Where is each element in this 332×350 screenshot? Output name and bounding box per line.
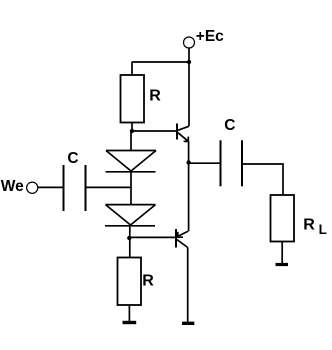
wire: junction down to D1 anode <box>130 131 132 151</box>
transistor Q1 emitter arrowhead <box>184 140 189 142</box>
node: D2/R2/Q2-base junction dot <box>127 236 131 240</box>
wire: +Ec terminal down to Q1 collector <box>188 48 190 126</box>
wire: We terminal to C1 <box>38 186 64 188</box>
wire: supply junction left to R1 top <box>132 61 190 63</box>
wire: C2 right plate to RL <box>242 164 283 195</box>
wire: R1 bottom to base node <box>131 123 133 132</box>
transistor Q2 (PNP bottom) base bar <box>175 229 177 248</box>
svg-text:L: L <box>319 222 327 237</box>
transistor Q2 emitter arrowhead <box>177 236 183 238</box>
transistor Q2 emitter diagonal <box>177 231 188 237</box>
svg-text:We: We <box>1 178 24 195</box>
diode D1 triangle right side <box>131 151 156 172</box>
transistor Q1 collector diagonal <box>178 126 189 130</box>
terminal +Ec circle <box>184 37 195 48</box>
diode D2 triangle right side <box>131 205 156 225</box>
svg-text:R: R <box>149 87 161 104</box>
node: supply junction dot <box>187 60 191 64</box>
transistor Q1 (NPN top) base bar <box>176 124 178 140</box>
diode D2 (bottom) anode line <box>106 204 156 206</box>
wire: R1 top stub <box>131 62 133 75</box>
wire: Q2 collector down to ground <box>187 248 189 322</box>
capacitor C1 (input) left plate <box>63 165 65 211</box>
wire: RL bottom to ground <box>281 242 283 264</box>
wire: D2 cathode down to R2 <box>129 226 131 258</box>
svg-text:C: C <box>224 117 235 134</box>
ground (R2) <box>123 321 137 324</box>
wire: junction to Q2 base <box>129 236 175 238</box>
diode D1 triangle left side <box>106 151 131 172</box>
diode D1 cathode bar <box>106 171 156 173</box>
wire: C1 right plate to diode node <box>86 186 132 188</box>
wire: Q1 emitter down to Q2 emitter <box>188 141 190 231</box>
diode D2 triangle left side <box>106 205 131 225</box>
terminal We circle <box>27 182 38 193</box>
capacitor C2 (output) left plate <box>220 140 222 186</box>
wire: junction to Q1 base <box>132 130 176 132</box>
diode D2 cathode bar <box>105 225 155 227</box>
node: output junction dot <box>186 160 190 164</box>
ground (Q2 collector) <box>182 322 194 325</box>
svg-text:R: R <box>303 217 315 234</box>
resistor R2 (bottom) body <box>118 258 142 306</box>
transistor Q2 collector diagonal <box>177 240 188 248</box>
capacitor C2 right plate <box>241 140 243 186</box>
wire: R2 bottom to ground <box>128 305 130 321</box>
ground (RL) <box>276 263 289 266</box>
resistor R1 (top) body <box>121 75 145 123</box>
resistor RL body <box>271 195 295 242</box>
wire: D1 cathode to D2 anode <box>130 172 132 205</box>
svg-text:C: C <box>67 150 78 167</box>
capacitor C1 right plate <box>85 165 87 211</box>
transistor Q1 emitter diagonal <box>178 133 188 142</box>
wire: output node right to capacitor C2 <box>189 162 221 164</box>
diode D1 (top) anode line <box>106 150 156 152</box>
svg-text:+Ec: +Ec <box>196 28 224 45</box>
svg-text:R: R <box>142 273 154 290</box>
node: R1/diode/base junction dot <box>130 129 134 133</box>
